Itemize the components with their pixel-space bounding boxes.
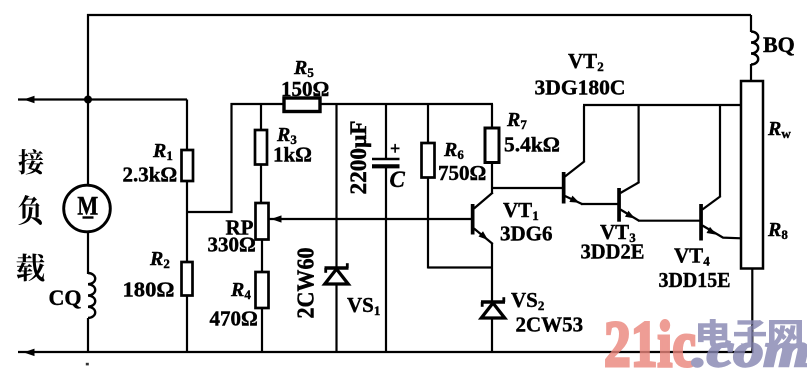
svg-text:750Ω: 750Ω	[438, 161, 486, 185]
svg-text:M: M	[77, 192, 98, 221]
svg-text:5.4kΩ: 5.4kΩ	[504, 133, 560, 157]
svg-text:330Ω: 330Ω	[208, 233, 256, 257]
svg-text:3DD15E: 3DD15E	[659, 268, 731, 292]
svg-text:180Ω: 180Ω	[123, 278, 175, 302]
svg-text:1kΩ: 1kΩ	[273, 143, 312, 167]
svg-text:BQ: BQ	[763, 32, 795, 57]
svg-text:2.3kΩ: 2.3kΩ	[123, 163, 178, 187]
svg-text:+: +	[390, 139, 400, 159]
svg-text:3DG180C: 3DG180C	[535, 76, 626, 100]
svg-text:3DD2E: 3DD2E	[581, 240, 645, 264]
svg-text:21ic: 21ic	[604, 308, 696, 369]
svg-text:2200μF: 2200μF	[346, 121, 371, 195]
svg-text:.com: .com	[692, 324, 807, 369]
svg-text:C: C	[390, 167, 406, 192]
svg-text:150Ω: 150Ω	[281, 77, 329, 101]
svg-text:2CW53: 2CW53	[516, 313, 584, 337]
svg-text:470Ω: 470Ω	[210, 307, 258, 331]
svg-text:3DG6: 3DG6	[500, 222, 553, 246]
svg-text:CQ: CQ	[49, 285, 82, 310]
svg-text:2CW60: 2CW60	[294, 248, 320, 319]
